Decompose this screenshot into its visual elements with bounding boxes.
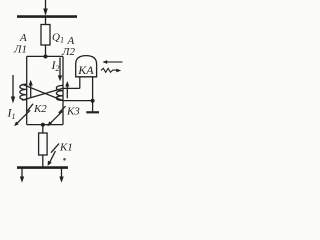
svg-text:К3: К3	[66, 106, 80, 118]
svg-text:К2: К2	[33, 103, 47, 115]
svg-text:КА: КА	[77, 63, 94, 77]
svg-text:Л2: Л2	[61, 46, 75, 58]
svg-text:К1: К1	[59, 142, 73, 154]
svg-text:А: А	[19, 32, 27, 44]
svg-text:Л1: Л1	[13, 44, 27, 56]
